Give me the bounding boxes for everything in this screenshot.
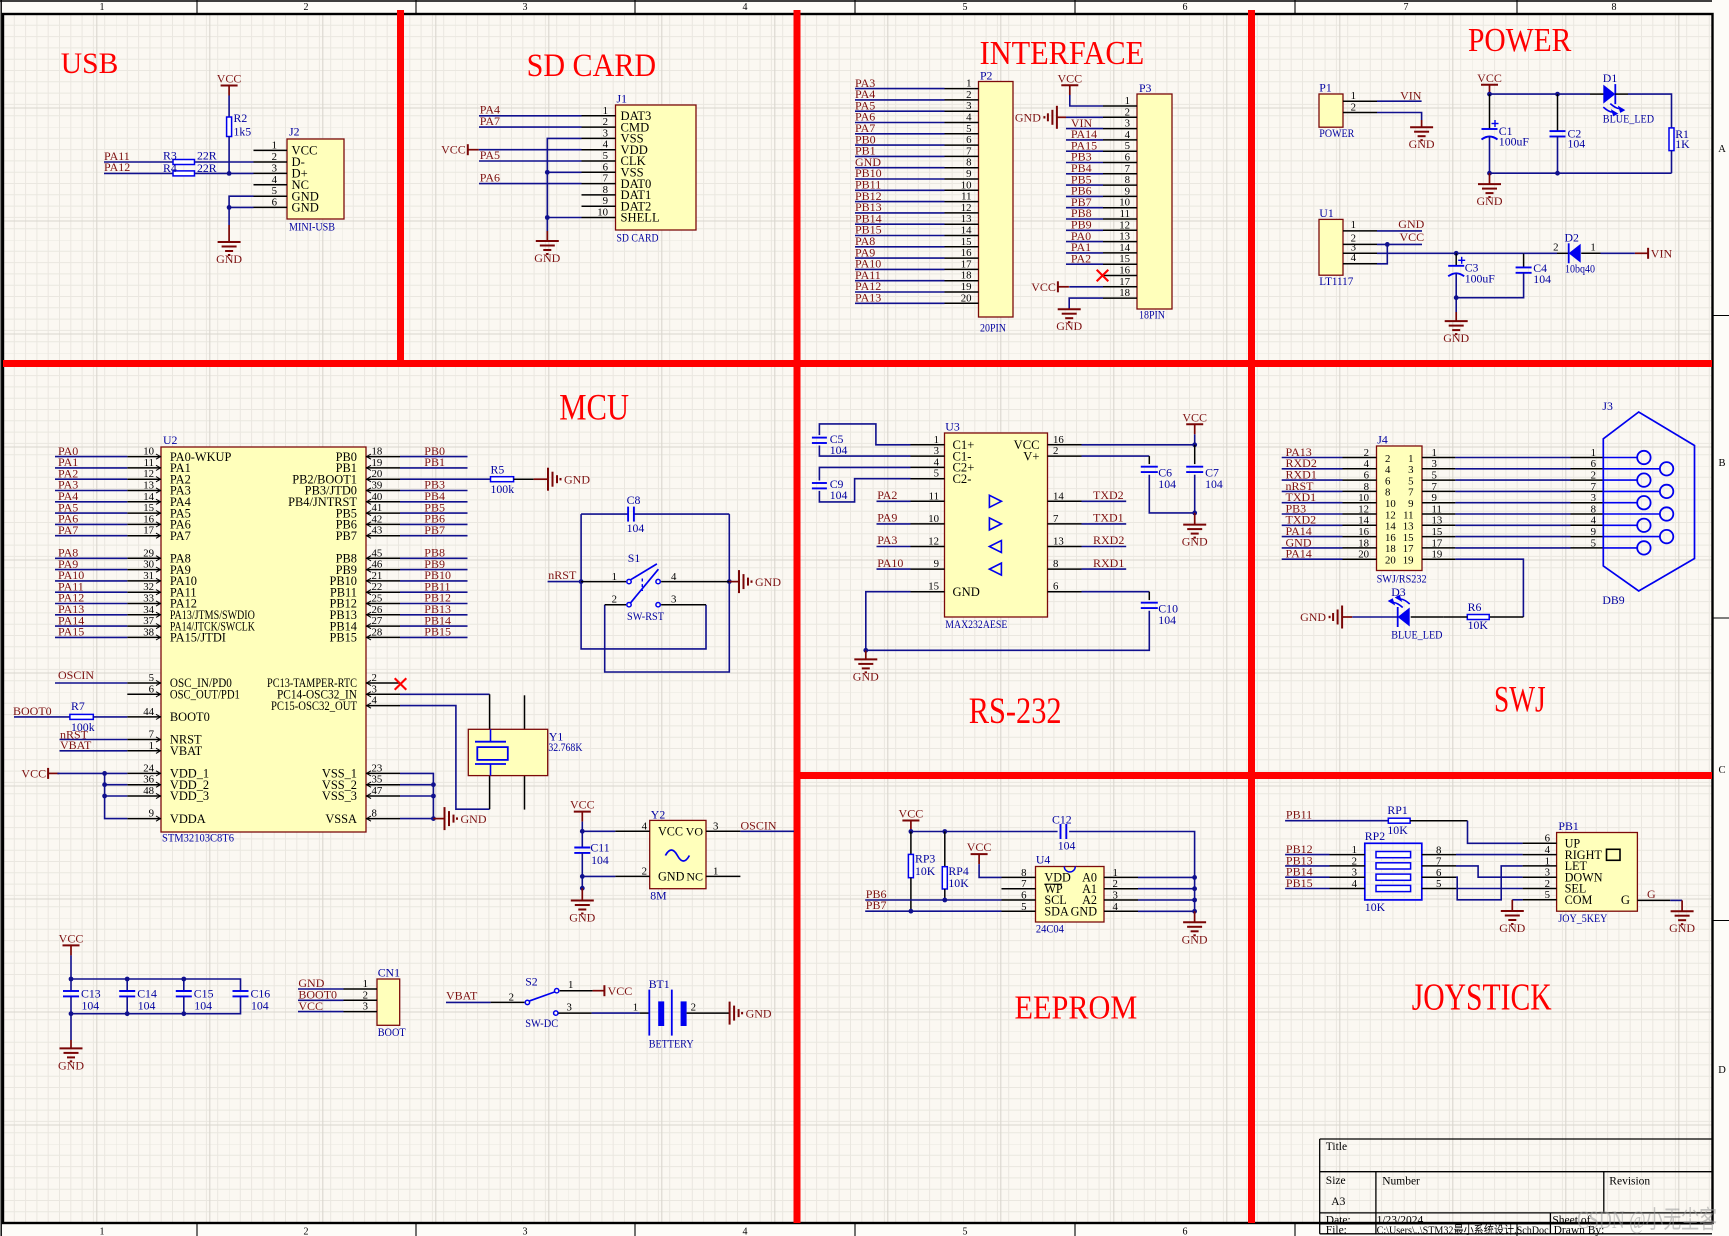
junction	[431, 794, 436, 799]
wire RP2 pin6 to PB1 LET	[1456, 866, 1523, 900]
svg-text:2: 2	[1545, 878, 1550, 890]
svg-text:3: 3	[713, 820, 718, 832]
wire VCC to J1 pin4 VDD	[479, 149, 582, 151]
Y2 pin 4	[615, 830, 649, 832]
junction	[181, 977, 186, 982]
svg-text:VCC: VCC	[570, 798, 595, 812]
svg-text:19: 19	[1432, 549, 1443, 561]
wire VCC to P3 pin17	[1069, 286, 1103, 288]
svg-text:6: 6	[1364, 470, 1370, 482]
svg-text:2: 2	[603, 116, 608, 128]
U2 pin 27 PB14	[366, 625, 400, 627]
svg-text:PA2: PA2	[1071, 251, 1091, 265]
svg-text:VCC: VCC	[967, 840, 992, 854]
wire VCC to R2	[228, 96, 230, 118]
svg-text:3: 3	[1352, 867, 1357, 879]
svg-text:P2: P2	[980, 69, 993, 83]
svg-text:14: 14	[1119, 242, 1130, 254]
svg-text:7: 7	[1021, 878, 1027, 890]
svg-text:18: 18	[1358, 537, 1369, 549]
J1 pin 7 DAT0	[582, 183, 616, 185]
J1 pin 1 DAT3	[582, 115, 616, 117]
wire S1 loop right	[605, 514, 730, 672]
wire VCC to U4 pin8	[979, 864, 1001, 877]
svg-text:10: 10	[1119, 197, 1130, 209]
svg-text:10: 10	[1358, 492, 1369, 504]
wire U1 pin3 output	[1377, 252, 1524, 254]
P3 pin 17	[1103, 286, 1137, 288]
J1 pin 5 CLK	[582, 160, 616, 162]
svg-text:2: 2	[272, 151, 277, 163]
svg-text:6: 6	[1591, 458, 1597, 470]
svg-text:1: 1	[149, 740, 154, 752]
svg-text:3: 3	[372, 683, 377, 695]
svg-text:9: 9	[603, 195, 608, 207]
svg-text:BOOT0: BOOT0	[170, 710, 210, 724]
svg-text:OSCIN: OSCIN	[58, 668, 94, 682]
svg-text:9: 9	[1432, 492, 1437, 504]
junction	[69, 977, 74, 982]
svg-text:5: 5	[272, 185, 277, 197]
svg-text:5: 5	[966, 123, 971, 135]
svg-text:GND: GND	[461, 812, 487, 826]
svg-text:25: 25	[372, 593, 383, 605]
svg-text:9: 9	[966, 168, 971, 180]
J4 pin 8 net nRST	[1343, 490, 1377, 492]
power port VCC (SD)	[467, 144, 469, 155]
svg-text:PA9: PA9	[877, 511, 897, 525]
svg-text:J3: J3	[1602, 399, 1613, 413]
U1 pin 3	[1343, 252, 1377, 254]
svg-text:1: 1	[363, 978, 368, 990]
LED D1 BLUE_LED	[1590, 93, 1604, 95]
svg-text:STM32103C8T6: STM32103C8T6	[162, 831, 234, 845]
wire J4 pin 11 to DB9	[1455, 513, 1570, 515]
svg-text:40: 40	[372, 491, 383, 503]
svg-text:VCC: VCC	[1057, 71, 1082, 85]
svg-text:VCC: VCC	[21, 766, 46, 780]
wire J1 pin10 SHELL	[547, 217, 581, 219]
svg-text:18: 18	[372, 446, 383, 458]
svg-text:104: 104	[830, 443, 848, 457]
capacitor C2 104	[1557, 94, 1559, 131]
U4 pin 4 GND	[1104, 910, 1138, 912]
svg-text:16: 16	[1358, 526, 1369, 538]
svg-text:104: 104	[830, 488, 848, 502]
wire J4 pin19 to R6	[1455, 559, 1523, 617]
capacitor C11 104	[581, 831, 583, 847]
junction	[1385, 242, 1390, 247]
wire J1 pin6 VSS	[547, 171, 581, 173]
ground GND (USB)	[228, 225, 230, 242]
svg-text:10: 10	[597, 207, 608, 219]
crystal Y1 32.768K	[489, 694, 491, 729]
svg-text:D2: D2	[1565, 231, 1580, 245]
RP2 pin 4 net PB15	[1330, 888, 1365, 890]
svg-text:GND: GND	[1669, 921, 1695, 935]
svg-text:J2: J2	[289, 125, 300, 139]
svg-text:BETTERY: BETTERY	[649, 1037, 694, 1051]
svg-text:4: 4	[1364, 458, 1370, 470]
wire bottom rail	[1490, 172, 1672, 174]
junction	[227, 205, 232, 210]
svg-text:17: 17	[1403, 543, 1414, 555]
svg-text:POWER: POWER	[1319, 126, 1354, 140]
svg-text:4: 4	[1545, 844, 1551, 856]
ground GND (COM)	[1511, 900, 1513, 911]
svg-text:PA3: PA3	[877, 533, 897, 547]
S2 pin1 to VCC	[560, 990, 593, 992]
svg-text:31: 31	[143, 570, 154, 582]
svg-text:C2-: C2-	[953, 472, 972, 486]
svg-text:1: 1	[272, 139, 277, 151]
CN1 pin 1 net GND	[344, 988, 378, 990]
svg-text:MCU: MCU	[559, 387, 629, 428]
svg-text:JOY_5KEY: JOY_5KEY	[1558, 911, 1607, 925]
svg-text:20: 20	[1385, 555, 1396, 567]
wire U3 GND pin15	[866, 592, 911, 651]
svg-text:J1: J1	[617, 92, 628, 106]
svg-text:8: 8	[1385, 487, 1390, 499]
svg-text:2: 2	[372, 672, 377, 684]
svg-text:RP2: RP2	[1365, 829, 1385, 843]
power port VIN sideways	[1635, 252, 1648, 254]
svg-text:BOOT: BOOT	[378, 1025, 407, 1039]
svg-text:10bq40: 10bq40	[1565, 261, 1595, 275]
svg-text:14: 14	[1053, 490, 1064, 502]
svg-text:PA6: PA6	[480, 170, 500, 184]
wire PB1 COM to GND	[1512, 899, 1522, 901]
U2 pin 33 PA12	[127, 603, 161, 605]
U2 pin 45 PB8	[366, 557, 400, 559]
J4 pin 7	[1422, 490, 1455, 492]
svg-text:4: 4	[671, 571, 677, 583]
ground GND (P3 pin18)	[1058, 308, 1081, 310]
wire PA5 to J1 pin5 CLK	[479, 160, 582, 162]
svg-text:19: 19	[372, 457, 383, 469]
P3 pin 9	[1103, 195, 1137, 197]
BT1 pin2 to GND	[687, 1012, 730, 1014]
U2 pin 28 PB15	[366, 636, 400, 638]
svg-text:3: 3	[1125, 118, 1130, 130]
svg-text:10K: 10K	[915, 864, 936, 878]
svg-text:19: 19	[961, 281, 972, 293]
U2 pin 20 PB2/BOOT1	[366, 478, 400, 480]
svg-text:C12: C12	[1052, 812, 1072, 826]
svg-text:3: 3	[671, 594, 676, 606]
P3 pin 13	[1103, 241, 1137, 243]
svg-text:4: 4	[642, 820, 648, 832]
U2 pin 2 PC13-TAMPER-RTC	[366, 682, 400, 684]
wire PA12 to J2 pin3	[104, 172, 254, 174]
svg-text:V+: V+	[1023, 449, 1039, 463]
U2 pin 7 NRST	[127, 739, 161, 741]
svg-text:GND: GND	[569, 911, 595, 925]
wire PA6 to J1 pin7 DAT0	[479, 183, 582, 185]
U2 pin 42 PB6	[366, 523, 400, 525]
power port VCC (power rail)	[1481, 84, 1498, 86]
svg-text:11: 11	[1120, 208, 1130, 220]
svg-text:17: 17	[1432, 537, 1443, 549]
junction	[431, 816, 436, 821]
svg-text:9: 9	[934, 558, 939, 570]
svg-text:VSS_3: VSS_3	[322, 789, 357, 803]
P2 pin 11 net PB12	[945, 201, 979, 203]
svg-text:10: 10	[1385, 498, 1396, 510]
svg-text:GND: GND	[564, 472, 590, 486]
P2 pin 3 net PA5	[945, 110, 979, 112]
svg-text:LT1117: LT1117	[1319, 274, 1353, 288]
svg-text:MINI-USB: MINI-USB	[289, 220, 335, 234]
svg-text:VCC: VCC	[59, 931, 84, 945]
svg-text:5: 5	[934, 468, 939, 480]
PB1 button square symbol	[1607, 849, 1621, 860]
capacitor C3 100uF	[1455, 253, 1457, 265]
svg-text:1: 1	[1352, 844, 1357, 856]
wire PA4 to J1 pin1	[479, 115, 582, 117]
J2 pin 3 D+	[254, 172, 288, 174]
resistor RP3 10K	[910, 832, 912, 855]
PB1 pin G	[1637, 899, 1670, 901]
P3 pin 11	[1103, 218, 1137, 220]
connector J1 SD CARD	[616, 105, 697, 230]
J1 pin 2 CMD	[582, 126, 616, 128]
svg-text:7: 7	[603, 173, 609, 185]
svg-text:PB7: PB7	[866, 898, 887, 912]
svg-text:4: 4	[1113, 901, 1119, 913]
junction	[1192, 511, 1197, 516]
red section divider vertical x=797	[794, 10, 801, 1223]
svg-text:C8: C8	[627, 493, 641, 507]
P3 pin 14	[1103, 252, 1137, 254]
connector CN1 BOOT	[377, 979, 400, 1025]
U1 pin 2	[1343, 243, 1377, 245]
svg-text:GND: GND	[658, 870, 685, 884]
U2 pin 31 PA10	[127, 580, 161, 582]
junction	[580, 829, 585, 834]
svg-text:GND: GND	[1300, 610, 1326, 624]
svg-text:VCC: VCC	[1182, 410, 1207, 424]
U3 pin 13	[1048, 546, 1082, 548]
svg-text:1: 1	[1590, 242, 1595, 254]
svg-text:6: 6	[1183, 1227, 1188, 1236]
J1 pin 8 DAT1	[582, 194, 616, 196]
svg-text:7: 7	[1436, 856, 1442, 868]
svg-text:1: 1	[603, 105, 608, 117]
J2 pin 1 VCC	[254, 149, 288, 151]
svg-text:4: 4	[934, 456, 940, 468]
svg-text:1: 1	[934, 434, 939, 446]
svg-text:43: 43	[372, 525, 383, 537]
PB1 pin 3 DOWN	[1523, 876, 1557, 878]
svg-text:14: 14	[1358, 515, 1369, 527]
svg-text:3: 3	[523, 2, 528, 13]
capacitor C9 104 + wiring	[819, 467, 910, 480]
svg-text:G: G	[1647, 887, 1656, 901]
U1 pin 4	[1343, 263, 1377, 265]
svg-text:RXD2: RXD2	[1093, 533, 1124, 547]
U2 pin 3 PC14-OSC32_IN	[366, 693, 400, 695]
wire U3 pin2 V+ to C6	[1082, 455, 1150, 457]
U3 pin 1	[911, 444, 945, 446]
svg-text:B: B	[1718, 458, 1725, 469]
svg-text:12: 12	[143, 468, 154, 480]
P2 pin 2 net PA4	[945, 99, 979, 101]
svg-text:2: 2	[1553, 242, 1558, 254]
U2 pin 18 PB0	[366, 456, 400, 458]
svg-text:INTERFACE: INTERFACE	[980, 35, 1145, 72]
svg-text:VCC: VCC	[1031, 280, 1056, 294]
svg-text:BOOT0: BOOT0	[13, 704, 52, 718]
svg-text:34: 34	[143, 604, 154, 616]
svg-text:26: 26	[372, 604, 383, 616]
svg-text:11: 11	[144, 457, 154, 469]
P2 pin 15 net PA8	[945, 246, 979, 248]
wire PA7 to J1 pin2	[479, 126, 582, 128]
CN1 pin 3 net VCC	[344, 1011, 378, 1013]
wire D1 to R1	[1628, 94, 1672, 128]
connector P1 POWER	[1319, 94, 1343, 127]
svg-text:GND: GND	[1182, 535, 1208, 549]
LED D3 BLUE_LED	[1398, 608, 1410, 627]
J1 pin 9 DAT2	[582, 205, 616, 207]
svg-text:28: 28	[372, 626, 383, 638]
junction	[1454, 295, 1459, 300]
svg-text:24: 24	[143, 762, 154, 774]
wire U3 pin16 to VCC	[1082, 444, 1195, 446]
svg-text:100k: 100k	[491, 482, 515, 496]
U2 pin 11 PA1	[127, 467, 161, 469]
ground GND sideways (R5)	[534, 478, 548, 480]
svg-text:8: 8	[1125, 174, 1130, 186]
svg-text:SW-DC: SW-DC	[525, 1016, 558, 1030]
svg-text:29: 29	[143, 547, 154, 559]
resistor network RP2 10K	[1365, 843, 1422, 900]
U2 pin 10 PA0-WKUP	[127, 456, 161, 458]
svg-text:12: 12	[1385, 509, 1396, 521]
svg-text:VCC: VCC	[1400, 230, 1425, 244]
resistor R1 1K	[1669, 128, 1674, 151]
U3 pin 7	[1048, 523, 1082, 525]
svg-text:30: 30	[143, 559, 154, 571]
RP2 pin 6	[1422, 876, 1456, 878]
wire VCC to VDD pins	[57, 772, 127, 774]
RP2 pin 7	[1422, 865, 1456, 867]
svg-text:BT1: BT1	[649, 977, 670, 991]
svg-text:1: 1	[568, 979, 573, 991]
svg-text:Y2: Y2	[651, 807, 666, 821]
svg-text:5: 5	[603, 150, 608, 162]
J1 pin 3 VSS	[582, 137, 616, 139]
svg-text:Title: Title	[1326, 1141, 1347, 1153]
svg-text:PA15/JTDI: PA15/JTDI	[170, 631, 226, 645]
svg-text:SD CARD: SD CARD	[617, 231, 659, 245]
U2 pin 17 PA7	[127, 535, 161, 537]
svg-text:15: 15	[961, 236, 972, 248]
svg-text:104: 104	[1205, 477, 1223, 491]
svg-text:VIN: VIN	[1651, 246, 1673, 260]
svg-text:C:\Users\..\STM32最小系统设计.SchDoc: C:\Users\..\STM32最小系统设计.SchDoc	[1377, 1224, 1549, 1236]
P1 pin 2	[1343, 112, 1377, 114]
connector P2 20PIN	[979, 82, 1014, 318]
wire RP2 pin8 to PB1 RIGHT	[1456, 854, 1523, 856]
power port VCC (P3 pin1)	[1061, 84, 1078, 86]
U2 pin 19 PB1	[366, 467, 400, 469]
svg-text:8: 8	[1053, 558, 1058, 570]
capacitor C7 104	[1194, 445, 1196, 464]
svg-text:3: 3	[363, 1001, 368, 1013]
top ruler ticks	[196, 0, 198, 14]
svg-text:2: 2	[1351, 102, 1356, 114]
svg-text:16: 16	[1385, 532, 1396, 544]
ground GND (C6/C7)	[1194, 513, 1196, 525]
svg-text:GND: GND	[746, 1006, 772, 1020]
svg-text:BLUE_LED: BLUE_LED	[1603, 111, 1655, 125]
junction	[181, 1011, 186, 1016]
junction	[1487, 92, 1492, 97]
svg-text:17: 17	[961, 258, 972, 270]
svg-text:C: C	[1718, 765, 1725, 776]
capacitor C15 104	[183, 979, 185, 991]
svg-text:D1: D1	[1603, 71, 1618, 85]
svg-text:13: 13	[961, 213, 972, 225]
svg-text:2: 2	[1385, 453, 1390, 465]
diode D2 10bq40	[1524, 252, 1557, 254]
ground GND (G)	[1681, 900, 1683, 911]
P3 pin 6	[1103, 162, 1137, 164]
svg-text:20PIN: 20PIN	[980, 321, 1006, 335]
svg-text:VCC: VCC	[1477, 71, 1502, 85]
U2 pin 6 OSC_OUT/PD1	[127, 693, 161, 695]
J1 pin 4 VDD	[582, 149, 616, 151]
wire VCC to Y2 pin4	[581, 822, 583, 832]
svg-text:10K: 10K	[1468, 618, 1489, 632]
red section divider horizontal y=775 right half	[797, 772, 1712, 779]
U1 pin 1	[1343, 230, 1377, 232]
svg-text:4: 4	[272, 174, 278, 186]
svg-text:3: 3	[1408, 464, 1413, 476]
U4 pin 6 SCL	[1002, 899, 1036, 901]
svg-text:12: 12	[961, 202, 972, 214]
junction	[863, 648, 868, 653]
svg-text:SW-RST: SW-RST	[627, 609, 665, 623]
svg-text:GND: GND	[1409, 137, 1435, 151]
svg-text:JOYSTICK: JOYSTICK	[1412, 977, 1552, 1019]
svg-text:nRST: nRST	[548, 568, 577, 582]
svg-text:15: 15	[143, 502, 154, 514]
U3 pin 12	[911, 546, 945, 548]
svg-text:PC15-OSC32_OUT: PC15-OSC32_OUT	[271, 699, 357, 713]
svg-text:10: 10	[961, 179, 972, 191]
junction	[580, 886, 585, 891]
junction	[1454, 251, 1459, 256]
svg-text:13: 13	[1432, 515, 1443, 527]
svg-text:Revision: Revision	[1609, 1176, 1650, 1188]
U2 pin 29 PA8	[127, 557, 161, 559]
red section divider vertical x=1251	[1248, 10, 1255, 1223]
J4 pin 14 net TXD2	[1343, 524, 1377, 526]
ground GND sideways (VSSA)	[433, 818, 444, 820]
junction	[942, 829, 947, 834]
svg-text:GND: GND	[1398, 217, 1424, 231]
resistor R4 22R	[173, 171, 195, 176]
PB1 pin 4 RIGHT	[1523, 854, 1557, 856]
svg-text:2: 2	[966, 89, 971, 101]
J4 pin 9	[1422, 502, 1455, 504]
svg-text:5: 5	[1432, 470, 1437, 482]
svg-text:VCC: VCC	[441, 143, 466, 157]
ground GND (C3/C4)	[1455, 298, 1457, 312]
